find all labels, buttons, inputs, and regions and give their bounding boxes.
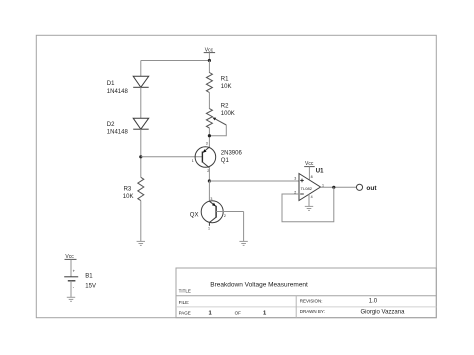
feedback wire (282, 187, 334, 222)
value TL082 (301, 186, 313, 191)
pin 3 (QX top) (210, 197, 212, 201)
TITLE label (179, 289, 191, 294)
svg-text:1.0: 1.0 (369, 299, 378, 305)
svg-text:2N3906: 2N3906 (221, 150, 243, 156)
wire battery to ground (70, 281, 72, 298)
PAGE row (179, 311, 191, 316)
svg-text:D1: D1 (107, 81, 115, 87)
svg-text:3: 3 (210, 197, 212, 201)
wire to D1 (140, 61, 142, 77)
svg-text:Vcc: Vcc (305, 161, 314, 167)
wire base of Q1 (141, 156, 203, 158)
svg-text:Breakdown Voltage Measurement: Breakdown Voltage Measurement (210, 281, 308, 288)
svg-text:OF: OF (235, 311, 242, 316)
ground (below R3) (137, 241, 145, 245)
resistor R3 (138, 177, 144, 200)
svg-text:U1: U1 (316, 168, 324, 174)
title block (176, 268, 436, 318)
junction dot at Vcc/R1 (208, 59, 211, 62)
trimmer R2 (206, 109, 212, 128)
svg-text:Vcc: Vcc (65, 254, 74, 260)
pin 3 (Q1 emitter) (206, 142, 208, 146)
svg-text:R2: R2 (221, 103, 229, 109)
svg-text:1: 1 (192, 159, 194, 163)
svg-text:10K: 10K (123, 194, 134, 200)
DRAWN BY label (300, 309, 325, 314)
wire collector node down to QX (208, 181, 210, 201)
op-amp U1 TL082 (299, 174, 321, 201)
svg-text:QX: QX (190, 213, 199, 219)
junction dot output (332, 186, 335, 189)
battery B1: Vcc symbol (65, 254, 77, 277)
battery B1 plates (64, 277, 78, 281)
svg-text:2: 2 (224, 214, 226, 218)
diode D2 (133, 118, 149, 129)
wire D2 down to R3 with base tap (140, 129, 142, 177)
resistor R1 (206, 73, 212, 93)
pin 8 (U1 V+) (311, 175, 313, 179)
svg-text:1: 1 (208, 227, 210, 231)
FILE label (179, 300, 190, 305)
svg-text:out: out (366, 185, 377, 192)
svg-text:Giorgio Vazzana: Giorgio Vazzana (361, 309, 406, 315)
wire QX base to ground (243, 212, 245, 242)
pin 4 (U1 V-) (311, 195, 313, 199)
svg-text:3: 3 (206, 142, 208, 146)
wire top horizontal (141, 60, 210, 62)
wire R1 to R2 (208, 92, 210, 109)
svg-text:10K: 10K (221, 84, 232, 90)
svg-text:TL082: TL082 (301, 186, 313, 191)
svg-text:1N4148: 1N4148 (107, 130, 129, 136)
pin 2 (QX base) (224, 214, 226, 218)
svg-text:FILE:: FILE: (179, 300, 190, 305)
svg-text:D2: D2 (107, 122, 115, 128)
pin 1 (U1 out) (322, 184, 324, 188)
wire U1 pin4 to ground (308, 194, 310, 206)
REVISION label (300, 299, 323, 304)
wire D1 to D2 (140, 87, 142, 118)
diode D1 (133, 76, 149, 87)
svg-text:R3: R3 (124, 186, 132, 192)
svg-text:PAGE: PAGE (179, 311, 191, 316)
svg-text:TITLE: TITLE (179, 289, 191, 294)
port out (356, 184, 362, 190)
svg-text:2: 2 (207, 169, 209, 173)
junction dot base tap (139, 155, 142, 158)
wire R2 to junction (208, 128, 210, 147)
R2 wiper arrow and return wire (209, 117, 226, 135)
battery pin - (73, 285, 75, 290)
pin 2 (U1 -) (294, 190, 296, 194)
pin 3 (U1 +) (294, 176, 296, 180)
transistor Q1 2N3906 (195, 147, 216, 181)
junction dot R2 wiper (208, 134, 211, 137)
svg-text:100K: 100K (221, 111, 235, 117)
ground (QX base) (239, 241, 247, 245)
transistor QX (201, 201, 243, 226)
svg-text:REVISION:: REVISION: (300, 299, 323, 304)
svg-text:R1: R1 (221, 76, 229, 82)
Vcc power symbol (top, above R1) (204, 47, 215, 60)
wire R3 to ground (140, 201, 142, 242)
battery pin + (73, 269, 76, 274)
svg-text:1N4148: 1N4148 (107, 89, 129, 95)
pin 2 (Q1 collector) (207, 169, 209, 173)
pin 1 (QX bottom) (208, 227, 210, 231)
sheet frame (36, 35, 436, 317)
svg-text:4: 4 (311, 195, 313, 199)
ground (battery) (67, 297, 75, 301)
svg-text:Vcc: Vcc (205, 47, 214, 53)
Vcc power symbol (above op-amp) (304, 161, 315, 180)
wire collector node to op-amp (209, 180, 299, 182)
svg-text:3: 3 (294, 176, 296, 180)
svg-text:8: 8 (311, 175, 313, 179)
svg-text:B1: B1 (85, 274, 93, 280)
OF label (235, 311, 242, 316)
wire Vcc junction to R1 (208, 61, 210, 73)
svg-text:15V: 15V (85, 284, 96, 290)
junction dot collector node (208, 179, 211, 182)
svg-text:DRAWN BY:: DRAWN BY: (300, 309, 325, 314)
svg-text:Q1: Q1 (221, 158, 230, 164)
wire output (321, 186, 357, 188)
ground (op-amp) (305, 206, 313, 210)
pin 1 (Q1 base) (192, 159, 194, 163)
